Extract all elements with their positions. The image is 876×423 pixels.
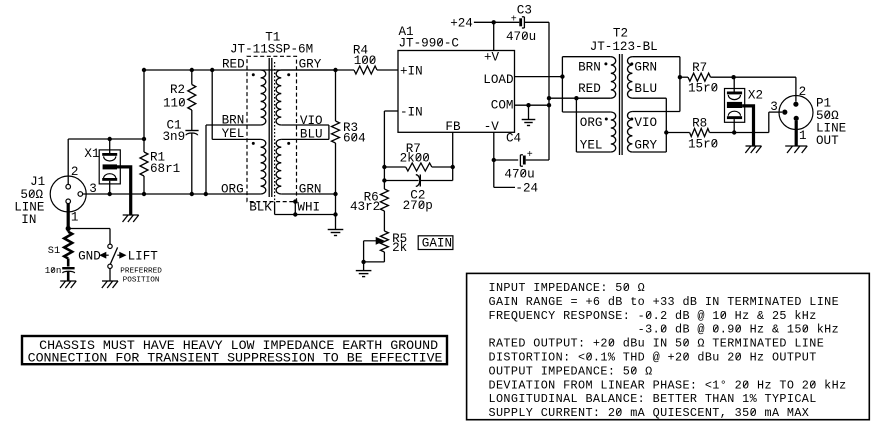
capacitor 10n (heavy) [62, 259, 75, 282]
node R1 bottom on rail [142, 192, 146, 196]
J1 pin 1 socket [66, 199, 71, 204]
chassis ground under 10n [60, 281, 76, 288]
connector J1 XLR female body [50, 176, 86, 212]
svg-text:RED: RED [578, 82, 601, 96]
J1 pin 3 socket [78, 192, 83, 197]
heavy wire J1 pin1 to junction [67, 204, 70, 229]
svg-text:CONNECTION FOR TRANSIENT SUPPR: CONNECTION FOR TRANSIENT SUPPRESSION TO … [28, 351, 443, 366]
svg-text:270p: 270p [403, 199, 433, 213]
T1 primary winding 2 coil (YEL-ORG) [261, 139, 266, 194]
wire GRY lead [281, 69, 335, 71]
T1 core [269, 58, 272, 197]
svg-text:GRN: GRN [299, 182, 322, 196]
wire X2 top lead [733, 77, 735, 91]
P1 pin 2 [793, 102, 798, 107]
svg-text:JT-123-BL: JT-123-BL [590, 40, 658, 54]
T2 phase dot BRN [604, 62, 607, 65]
T1 secondary winding 2 coil (BLU-GRN) [276, 139, 281, 194]
svg-text:DISTORTION: <0.1% THD @ +20 dB: DISTORTION: <0.1% THD @ +20 dBu 20 Hz OU… [489, 351, 817, 365]
A1 pin -V label [484, 120, 500, 134]
svg-text:BLU: BLU [300, 127, 323, 141]
node R7 tap on T2 [678, 75, 682, 79]
label WHI [297, 201, 320, 215]
node FB network left bottom [382, 178, 386, 182]
X1 top electrode [102, 153, 117, 161]
svg-text:R2: R2 [170, 83, 185, 97]
label C4 [506, 132, 521, 146]
wire FB pin drop [452, 132, 454, 180]
svg-text:T2: T2 [613, 27, 628, 41]
svg-text:RATED OUTPUT: +20 dBu IN 50 Ω: RATED OUTPUT: +20 dBu IN 50 Ω TERMINATED… [489, 337, 825, 351]
heavy wire P1 pin1 to ground [795, 121, 798, 146]
X2 top electrode [727, 92, 742, 100]
wire C4 to COM vertical [526, 159, 549, 161]
J1 pin 2 label [71, 165, 79, 179]
T2 secondary 1 bottom edge (BLU) [632, 97, 666, 99]
svg-text:C3: C3 [517, 4, 532, 18]
wire RED/COM to T2 [549, 97, 611, 99]
T1 phase dot primary 2 [252, 142, 255, 145]
wire YEL lead [212, 138, 260, 140]
svg-text:YEL: YEL [580, 138, 603, 152]
label JT-123-BL [590, 40, 658, 54]
node RED/COM-vert junction [547, 96, 551, 100]
wire VIO-BLU series link [328, 125, 330, 139]
node pin2/R1 junction [142, 137, 146, 141]
node FB right junction [451, 165, 455, 169]
svg-text:VIO: VIO [300, 114, 323, 128]
wire RED-YEL vertical [575, 98, 577, 152]
T2 secondary 2 bottom edge (GRY) [632, 151, 666, 153]
T2 primary 2 top edge (ORG) [562, 111, 610, 113]
label -24 [515, 181, 538, 195]
wire R7 to P1 pin2 [734, 77, 796, 101]
earth ground under T1 [328, 230, 344, 236]
svg-text:JT-990-C: JT-990-C [399, 36, 460, 50]
svg-text:GAIN: GAIN [422, 237, 452, 251]
wire GRN lead [281, 193, 335, 195]
wire -24 tail [494, 186, 515, 188]
A1 pin +IN label [400, 65, 423, 79]
node RED-YEL tie [574, 96, 578, 100]
node R8 tap on T2 [664, 130, 668, 134]
svg-text:GND: GND [78, 250, 101, 264]
resistor R6 [380, 189, 388, 211]
label R6 43r2 [350, 190, 380, 214]
node FB network left top [382, 165, 386, 169]
svg-text:PREFERRED: PREFERRED [120, 267, 162, 275]
wire -IN lead [384, 110, 398, 112]
svg-text:1: 1 [71, 210, 79, 224]
label RED [222, 58, 245, 72]
chassis ground under X1 [123, 215, 139, 222]
wire R4 to +IN [377, 69, 398, 71]
wire -V drop [493, 132, 495, 187]
node BRN riser bottom on rail [204, 192, 208, 196]
A1 pin -IN label [400, 106, 423, 120]
svg-text:1: 1 [799, 129, 807, 143]
heavy earth wire from X1 [117, 167, 131, 215]
svg-text:10n: 10n [45, 265, 62, 276]
label BRN T2 [578, 61, 601, 75]
node top rail at x=144 [142, 68, 146, 72]
T1 primary winding 1 coil (RED-BRN) [261, 70, 266, 125]
label RED T2 [578, 82, 601, 96]
connector P1 XLR male body [779, 96, 813, 130]
label T1 [265, 31, 280, 45]
wire WHI drop [294, 202, 296, 215]
surge arrester X1 box [99, 150, 120, 184]
svg-text:-IN: -IN [400, 106, 423, 120]
surge arrester X2 box [725, 89, 745, 123]
resistor R7 feedback [384, 163, 452, 171]
wire X2 bottom lead [733, 119, 735, 132]
T2 primary 1 coil [611, 57, 616, 99]
resistor S1 net (heavy) [64, 229, 72, 259]
node GRN/R3 junction [333, 192, 337, 196]
svg-text:2: 2 [71, 165, 79, 179]
T1 phase dot secondary 1 [287, 73, 290, 76]
node COM/COM-vert junction [547, 103, 551, 107]
label C2 270p [403, 188, 433, 213]
T1 phase dot secondary 2 [287, 142, 290, 145]
wire -IN vertical [383, 111, 385, 189]
wire BLU lead [281, 138, 329, 140]
svg-text:J1: J1 [30, 175, 45, 189]
label LIFT with arrow [117, 250, 158, 264]
J1 pin 3 label [89, 182, 97, 196]
label GRY [299, 58, 322, 72]
label R5 2k [392, 232, 407, 255]
specifications box [467, 273, 870, 420]
label ORG [221, 182, 244, 196]
svg-text:+24: +24 [450, 16, 473, 30]
svg-text:110: 110 [163, 97, 186, 111]
wire J1 pin2 riser [67, 139, 69, 184]
X2 center electrode [727, 102, 742, 108]
label BLK [249, 201, 272, 215]
T2 phase dot GRN [630, 62, 633, 65]
label P1 50ohm LINE OUT [816, 97, 846, 149]
svg-text:2: 2 [799, 85, 807, 99]
node YEL riser top [210, 68, 214, 72]
svg-text:LIFT: LIFT [128, 250, 159, 264]
wire R6 to R5 [383, 211, 385, 231]
resistor R8 [666, 129, 734, 137]
svg-text:FREQUENCY RESPONSE: -0.2 dB @: FREQUENCY RESPONSE: -0.2 dB @ 10 Hz & 25… [489, 309, 817, 323]
earth ground under R5 [356, 271, 372, 277]
label 10n [45, 265, 62, 276]
label 470u C3 [506, 30, 536, 44]
chassis warning note box [22, 336, 447, 366]
node X2 bottom junction [732, 130, 736, 134]
label GRN [299, 182, 322, 196]
label X2 [748, 88, 763, 102]
node +V junction [492, 20, 496, 24]
label C3 + [511, 15, 517, 26]
wire C1 bottom lead [191, 133, 193, 194]
svg-text:X1: X1 [84, 147, 99, 161]
wire X1 top lead [109, 139, 111, 153]
wire switch to ground [109, 269, 111, 282]
T1 shield box (dashed) [247, 56, 297, 201]
potentiometer R5 [380, 231, 388, 252]
label VIO T2 [634, 116, 657, 130]
svg-text:YEL: YEL [222, 127, 245, 141]
T2 phase dot VIO [630, 118, 633, 121]
R5 wiper arrow [364, 238, 384, 244]
svg-text:BLU: BLU [634, 82, 657, 96]
label 15r0 R8 [688, 138, 718, 152]
T1 faraday shield (dotted) [274, 62, 276, 202]
label BRN [222, 113, 245, 127]
P1 pin 2 label [799, 85, 807, 99]
label GND with arrow [78, 250, 109, 264]
resistor R7 output [680, 73, 734, 81]
svg-text:43r2: 43r2 [350, 200, 380, 214]
svg-text:-V: -V [484, 120, 500, 134]
T1 phase dot primary 1 [252, 73, 255, 76]
label R7 out [692, 61, 707, 75]
label T2 [613, 27, 628, 41]
T2 phase dot ORG [605, 118, 608, 121]
resistor R4 [354, 66, 377, 74]
T2 primary 2 bottom edge (YEL) [576, 151, 610, 153]
svg-text:VIO: VIO [634, 116, 657, 130]
capacitor C4 [520, 155, 525, 166]
earth ground at COM [522, 120, 536, 126]
svg-text:OUT: OUT [816, 134, 839, 148]
label BLU T2 [634, 82, 657, 96]
A1 pin LOAD label [483, 73, 513, 87]
label YEL T2 [580, 138, 603, 152]
wire pin2 horizontal to R1 node [68, 138, 144, 140]
label R1 68r1 [150, 151, 180, 177]
T2 secondary 1 winding box (GRN-BLU) [632, 57, 680, 112]
wire +V drop [493, 22, 495, 50]
svg-text:JT-11SSP-6M: JT-11SSP-6M [230, 43, 313, 57]
label +24 [450, 16, 473, 30]
label A1 [399, 25, 414, 39]
T2 core [620, 54, 623, 155]
node X2 top junction [731, 75, 735, 79]
svg-text:DEVIATION FROM LINEAR PHASE: <: DEVIATION FROM LINEAR PHASE: <1° 20 Hz T… [489, 378, 847, 392]
switch lever [110, 247, 117, 264]
svg-text:2k: 2k [392, 241, 407, 255]
svg-text:BLK: BLK [249, 201, 272, 215]
svg-text:-24: -24 [515, 181, 538, 195]
label R8 [692, 117, 707, 131]
svg-text:100: 100 [354, 54, 377, 68]
label 470u C4 [504, 167, 534, 181]
svg-text:WHI: WHI [297, 201, 320, 215]
svg-text:R8: R8 [692, 117, 707, 131]
svg-text:+IN: +IN [400, 65, 423, 79]
svg-text:X2: X2 [748, 88, 763, 102]
capacitor C1 [185, 131, 198, 136]
svg-text:POSITION: POSITION [123, 276, 160, 284]
svg-text:FB: FB [445, 120, 461, 134]
svg-text:-3.0 dB @ 0.90 Hz & 150 kHz: -3.0 dB @ 0.90 Hz & 150 kHz [489, 323, 840, 337]
label X1 [84, 147, 99, 161]
wire COM lead [515, 104, 550, 106]
X1 center electrode [103, 164, 117, 169]
T2 secondary 2 coil [628, 112, 633, 153]
node R2/C1 bottom on rail [190, 192, 194, 196]
node C4 junction [492, 158, 496, 162]
svg-text:ORG: ORG [580, 116, 603, 130]
svg-text:3n9: 3n9 [163, 130, 186, 144]
label GRN T2 [634, 61, 657, 75]
capacitor C3 [519, 17, 524, 28]
label C4 + [527, 150, 533, 161]
X1 bottom electrode [102, 174, 117, 181]
wire +24 rail [474, 21, 519, 23]
X2 bottom electrode [727, 111, 742, 119]
wire T1 ground drop [335, 194, 337, 230]
label J1 50ohm LINE IN [14, 175, 45, 227]
svg-text:R7: R7 [692, 61, 707, 75]
wire J1 pin3 bottom rail [83, 193, 261, 195]
node LOAD at T2 [560, 74, 564, 78]
node wiper/ground junction [361, 260, 365, 264]
wire R8 to P1 pin3 [734, 112, 782, 132]
svg-text:ORG: ORG [221, 182, 244, 196]
svg-text:BRN: BRN [222, 113, 245, 127]
T2 primary 2 coil [611, 112, 616, 152]
wire R2 to C1 [191, 110, 193, 131]
T2 secondary 1 coil [628, 57, 633, 99]
wire BRN riser to bottom rail [205, 125, 207, 194]
svg-text:GAIN RANGE = +6 dB to +33 dB I: GAIN RANGE = +6 dB to +33 dB IN TERMINAT… [489, 295, 840, 309]
wire to gain ground [363, 262, 365, 271]
svg-text:470u: 470u [506, 30, 536, 44]
wire top rail left segment [144, 69, 354, 71]
switch contact bottom [108, 264, 112, 268]
node GRY/R3/R4 junction [333, 68, 337, 72]
label ORG T2 [580, 116, 603, 130]
wire to switch S1 [68, 229, 110, 245]
wire BRN lead [206, 124, 261, 126]
wire BLU-GRY vertical [665, 98, 667, 152]
J1 pin 2 socket [66, 184, 71, 189]
heavy earth wire from X2 [742, 106, 753, 146]
wire x144 vertical upper [143, 70, 145, 152]
wire R2 top lead [191, 70, 193, 85]
wire X1 bottom lead [109, 181, 111, 194]
svg-text:3: 3 [770, 100, 778, 114]
chassis ground under P1 [785, 146, 807, 153]
label GAIN boxed [418, 236, 453, 251]
A1 pin +V label [484, 51, 500, 65]
label PREFERRED POSITION [120, 267, 162, 284]
T2 primary 1 winding box (BRN-RED) [562, 57, 610, 112]
label JT-11SSP-6M [230, 43, 313, 57]
A1 pin FB label [445, 120, 461, 134]
wire YEL riser to top rail [211, 70, 213, 139]
wire VIO lead [281, 124, 329, 126]
resistor R1 [140, 152, 148, 176]
node WHI top [293, 199, 297, 203]
svg-text:IN: IN [21, 213, 36, 227]
capacitor C2 [384, 175, 452, 187]
svg-text:OUTPUT IMPEDANCE: 50 Ω: OUTPUT IMPEDANCE: 50 Ω [489, 364, 653, 378]
label R4 100 [353, 43, 376, 68]
label VIO [300, 114, 323, 128]
svg-text:BRN: BRN [578, 61, 601, 75]
P1 pin 1 label [799, 129, 807, 143]
node pin1 junction [66, 226, 71, 231]
svg-text:GRY: GRY [634, 138, 657, 152]
label R2 110 [163, 83, 186, 111]
label BLU [300, 127, 323, 141]
label S1 [48, 245, 60, 257]
label R7 2k00 [400, 142, 430, 165]
svg-text:COM: COM [491, 99, 514, 113]
resistor R2 [188, 85, 196, 111]
wire LOAD lead [515, 76, 563, 78]
label GRY T2 [634, 138, 657, 152]
svg-text:+V: +V [484, 51, 500, 65]
P1 pin 3 label [770, 100, 778, 114]
chassis ground under switch [102, 281, 118, 288]
svg-text:RED: RED [222, 58, 245, 72]
svg-text:SUPPLY CURRENT: 20 mA QUIESCEN: SUPPLY CURRENT: 20 mA QUIESCENT, 350 mA … [489, 406, 810, 420]
svg-text:GRN: GRN [634, 61, 657, 75]
svg-text:604: 604 [343, 131, 366, 145]
svg-text:LOAD: LOAD [483, 73, 513, 87]
label C3 [517, 4, 532, 18]
wire COM ground stub [528, 105, 530, 119]
A1 pin COM label [491, 99, 514, 113]
node R2 top [190, 68, 194, 72]
T1 secondary winding 1 coil (GRY-VIO) [276, 70, 281, 125]
node COM ground tap [526, 103, 530, 107]
label JT-990-C [399, 36, 460, 50]
node shield/ground junction [333, 212, 337, 216]
wire shield BLK drop [275, 202, 336, 215]
label YEL [222, 127, 245, 141]
svg-text:470u: 470u [504, 167, 534, 181]
chassis ground under X2 [745, 146, 761, 153]
svg-text:68r1: 68r1 [150, 162, 180, 176]
switch contact top [108, 244, 112, 248]
P1 pin 1 [794, 116, 799, 121]
wire wiper to bottom [364, 241, 385, 262]
label R3 604 [343, 121, 366, 145]
T2 secondary 2 top edge (VIO) [632, 111, 680, 113]
J1 pin 1 label [71, 210, 79, 224]
node WHI bottom [293, 212, 297, 216]
svg-text:LONGITUDINAL BALANCE: BETTER T: LONGITUDINAL BALANCE: BETTER THAN 1% TYP… [489, 392, 817, 406]
svg-text:INPUT IMPEDANCE: 50 Ω: INPUT IMPEDANCE: 50 Ω [489, 281, 646, 295]
resistor R3 [332, 70, 340, 194]
node X1 top junction [108, 137, 112, 141]
P1 pin 3 [782, 110, 787, 115]
op-amp U1 A1 box [398, 51, 515, 133]
wire x144 vertical lower [143, 176, 145, 194]
capacitor C4 wire left [494, 159, 518, 161]
label C1 3n9 [163, 119, 186, 145]
svg-text:C4: C4 [506, 132, 521, 146]
label 15r0 R7 [688, 82, 718, 96]
wire C3 to COM vertical [524, 22, 549, 160]
svg-text:S1: S1 [48, 245, 60, 257]
node X1 bottom on rail [108, 192, 112, 196]
